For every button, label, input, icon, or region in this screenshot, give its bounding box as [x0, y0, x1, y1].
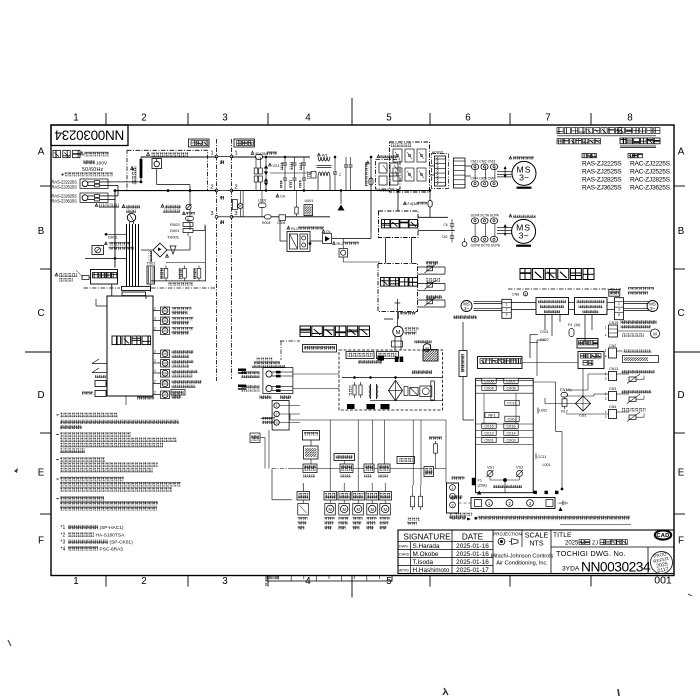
svg-text:RL1: RL1 [291, 227, 298, 231]
svg-text:C014: C014 [506, 431, 516, 436]
svg-text:RAS-ZJ3625S: RAS-ZJ3625S [52, 198, 78, 203]
svg-text:RL2: RL2 [337, 242, 344, 246]
svg-text:T001: T001 [147, 261, 157, 266]
svg-text:M: M [163, 319, 166, 323]
svg-text:CM1 CM2 CM3: CM1 CM2 CM3 [471, 160, 496, 164]
svg-text:1: 1 [618, 302, 620, 306]
svg-text:1: 1 [73, 576, 78, 587]
svg-text:2: 2 [234, 185, 237, 191]
svg-text:CAD: CAD [656, 533, 669, 539]
svg-text:E: E [38, 468, 45, 479]
svg-text:Hitachi-Johnson Controls: Hitachi-Johnson Controls [491, 554, 554, 560]
svg-text:CN13: CN13 [609, 367, 618, 371]
svg-text:L002: L002 [539, 409, 547, 413]
svg-text:T.Isoda: T.Isoda [413, 559, 434, 566]
svg-text:RAS-ZJ3625S: RAS-ZJ3625S [582, 185, 622, 192]
svg-text:M: M [370, 507, 374, 512]
svg-text:CC11: CC11 [507, 401, 517, 406]
svg-text:F4: F4 [568, 323, 572, 327]
svg-text:C004: C004 [484, 386, 494, 391]
svg-text:2025-01-16: 2025-01-16 [456, 551, 489, 558]
svg-text:VS2: VS2 [516, 466, 523, 470]
svg-text:RAC-ZJ2825S: RAC-ZJ2825S [630, 177, 671, 184]
svg-text:2: 2 [506, 308, 508, 312]
svg-text:CN2: CN2 [609, 344, 616, 348]
svg-text:PSC-6RA3: PSC-6RA3 [100, 547, 124, 553]
svg-text:M: M [163, 393, 166, 397]
svg-text:NN0030234: NN0030234 [581, 560, 651, 575]
svg-text:2: 2 [605, 397, 607, 401]
svg-text:3: 3 [222, 113, 228, 124]
svg-text:F4(3A: F4(3A [408, 202, 419, 206]
svg-text:2: 2 [154, 391, 156, 395]
svg-text:1: 1 [276, 404, 278, 408]
svg-text:1: 1 [605, 349, 607, 353]
svg-text:F1: F1 [478, 479, 482, 483]
svg-text:M: M [356, 507, 360, 512]
svg-text:50/60Hz: 50/60Hz [82, 167, 104, 173]
svg-text:CC11: CC11 [538, 455, 547, 459]
svg-text:3YDA: 3YDA [562, 566, 580, 573]
svg-text:6: 6 [465, 113, 471, 124]
svg-text:1: 1 [605, 410, 607, 414]
svg-text:A: A [678, 147, 685, 158]
svg-text:1: 1 [605, 326, 607, 330]
svg-text:C: C [37, 308, 44, 319]
svg-text:3~: 3~ [650, 306, 655, 311]
svg-text:C013: C013 [484, 431, 493, 436]
svg-text:C006: C006 [484, 379, 493, 384]
svg-text:SCPB SCTB SCPB: SCPB SCTB SCPB [471, 244, 501, 248]
svg-text:3: 3 [222, 576, 228, 587]
svg-text:NTS: NTS [530, 541, 544, 548]
svg-text:M: M [163, 382, 166, 386]
svg-text:A0802: A0802 [432, 151, 443, 155]
svg-text:RAS-ZJ2525S: RAS-ZJ2525S [52, 184, 78, 189]
svg-text:2025-01-17: 2025-01-17 [456, 567, 489, 574]
svg-text:3: 3 [234, 211, 237, 217]
svg-text:M: M [383, 507, 387, 512]
svg-text:2: 2 [605, 415, 607, 419]
svg-text:TITLE: TITLE [553, 532, 572, 539]
svg-text:SIGNATURE: SIGNATURE [403, 533, 451, 542]
svg-text:2: 2 [154, 380, 156, 384]
svg-text:D: D [677, 390, 684, 401]
svg-text:3: 3 [618, 307, 620, 311]
svg-text:C00J: C00J [507, 417, 516, 422]
svg-text:RAS-ZJ2225S: RAS-ZJ2225S [582, 161, 622, 168]
svg-text:(3A): (3A) [574, 323, 580, 327]
svg-text:M: M [653, 331, 657, 336]
svg-text:W1: W1 [322, 153, 329, 158]
svg-text:L001: L001 [543, 463, 551, 467]
svg-text:DWN.: DWN. [399, 545, 409, 549]
svg-text:M: M [396, 330, 401, 336]
svg-text:B: B [38, 226, 45, 237]
svg-text:1: 1 [506, 302, 508, 306]
svg-text:2025-01-16: 2025-01-16 [456, 543, 489, 550]
svg-text:5: 5 [386, 576, 392, 587]
svg-text:TH001: TH001 [167, 235, 180, 240]
svg-text:4: 4 [305, 576, 311, 587]
svg-text:2: 2 [154, 359, 156, 363]
svg-text:8: 8 [525, 292, 527, 296]
svg-text:2: 2 [141, 576, 146, 587]
svg-text:R003: R003 [170, 222, 180, 227]
svg-text:NN0030234: NN0030234 [54, 128, 124, 143]
svg-text:VS1: VS1 [487, 466, 494, 470]
svg-text:F: F [38, 536, 44, 547]
svg-text:4: 4 [305, 113, 311, 124]
svg-text:3~: 3~ [464, 306, 469, 311]
svg-text:CN8: CN8 [512, 293, 519, 297]
svg-text:C004: C004 [277, 221, 285, 225]
svg-text:3: 3 [506, 313, 508, 317]
svg-text:M: M [342, 507, 346, 512]
svg-text:SCPA SCTA SCPA: SCPA SCTA SCPA [471, 214, 500, 218]
svg-text:M: M [328, 507, 332, 512]
svg-text:CM4 CM5 CM6: CM4 CM5 CM6 [471, 177, 496, 181]
svg-text:A: A [38, 147, 45, 158]
svg-text:1: 1 [210, 151, 213, 157]
svg-text:*1: *1 [61, 525, 66, 531]
svg-text:M: M [163, 329, 166, 333]
svg-text:C001: C001 [484, 438, 493, 443]
svg-text:B: B [678, 226, 685, 237]
svg-text:D001: D001 [170, 228, 180, 233]
svg-text:2025-01-16: 2025-01-16 [456, 559, 489, 566]
svg-text:D001: D001 [108, 235, 118, 240]
svg-text:C021: C021 [540, 330, 549, 334]
svg-text:RL2: RL2 [561, 410, 568, 414]
svg-text:2: 2 [210, 185, 213, 191]
svg-text:2: 2 [276, 413, 278, 417]
svg-text:2: 2 [141, 113, 146, 124]
svg-text:RAS-ZJ2525S: RAS-ZJ2525S [582, 169, 622, 176]
svg-text:3~: 3~ [519, 172, 529, 182]
svg-text:3: 3 [276, 421, 278, 425]
svg-text:A0601: A0601 [378, 188, 390, 193]
svg-text:DATE: DATE [462, 533, 484, 542]
svg-text:8: 8 [627, 113, 633, 124]
svg-text:CN4: CN4 [609, 405, 616, 409]
svg-text:001: 001 [654, 575, 672, 587]
svg-text:M: M [163, 372, 166, 376]
svg-text:100V: 100V [96, 160, 108, 166]
svg-text:RAS-ZJ2825S: RAS-ZJ2825S [582, 177, 622, 184]
svg-text:2: 2 [605, 377, 607, 381]
svg-text:M.Okobe: M.Okobe [413, 551, 439, 558]
svg-text:E: E [678, 468, 685, 479]
svg-text:5: 5 [618, 313, 620, 317]
svg-text:C008: C008 [506, 386, 515, 391]
svg-text:M: M [163, 309, 166, 313]
svg-text:C003: C003 [506, 438, 515, 443]
svg-text:HA-S100TSA: HA-S100TSA [96, 533, 126, 539]
svg-text:*3: *3 [61, 540, 66, 546]
svg-text:7: 7 [545, 113, 550, 124]
svg-text:3~: 3~ [519, 230, 529, 240]
svg-text:NF1: NF1 [488, 413, 495, 418]
svg-text:2: 2 [154, 307, 156, 311]
svg-text:C62: C62 [442, 235, 448, 239]
svg-text:(25A): (25A) [478, 483, 488, 487]
svg-text:CN3: CN3 [609, 387, 616, 391]
svg-text:H.Hashimoto: H.Hashimoto [413, 567, 450, 574]
svg-text:D: D [37, 390, 44, 401]
svg-text:*4: *4 [61, 547, 66, 553]
svg-text:RAC-ZJ2525S: RAC-ZJ2525S [630, 169, 671, 176]
svg-text:PROJECTION: PROJECTION [493, 532, 521, 537]
svg-text:RAC-ZJ2225S: RAC-ZJ2225S [630, 161, 671, 168]
svg-text:TOCHIGI DWG. No.: TOCHIGI DWG. No. [556, 549, 626, 558]
svg-text:C: C [677, 308, 684, 319]
svg-text:CH: CH [280, 195, 286, 199]
svg-text:VS1: VS1 [273, 164, 280, 168]
svg-text:ZJ: ZJ [592, 541, 598, 547]
svg-text:5: 5 [386, 113, 392, 124]
svg-text:2: 2 [154, 327, 156, 331]
svg-text:M: M [163, 352, 166, 356]
svg-text:2: 2 [154, 350, 156, 354]
svg-text:SCALE: SCALE [525, 531, 549, 540]
svg-text:2025: 2025 [565, 541, 579, 547]
svg-text:4: 4 [605, 355, 607, 359]
svg-text:CN15: CN15 [609, 321, 618, 325]
svg-text:2: 2 [154, 369, 156, 373]
svg-text:S.Harada: S.Harada [413, 543, 440, 550]
svg-text:APVD.: APVD. [399, 569, 410, 573]
svg-text:Air Conditioning, Inc.: Air Conditioning, Inc. [496, 561, 548, 567]
svg-text:3: 3 [210, 211, 213, 217]
svg-text:U001: U001 [305, 199, 314, 203]
svg-text:2: 2 [154, 317, 156, 321]
svg-text:C6: C6 [443, 223, 447, 227]
svg-text:*2: *2 [61, 533, 66, 539]
svg-text:1: 1 [73, 113, 78, 124]
svg-text:F: F [678, 536, 684, 547]
svg-text:CHKD.: CHKD. [399, 553, 410, 557]
svg-text:4: 4 [605, 334, 607, 338]
svg-text:RAC-ZJ3625S: RAC-ZJ3625S [630, 185, 671, 192]
svg-text:M: M [163, 362, 166, 366]
svg-text:LD01: LD01 [258, 199, 267, 203]
svg-text:1: 1 [234, 151, 237, 157]
svg-text:(SP-HAC1): (SP-HAC1) [100, 525, 124, 531]
svg-text:R004: R004 [262, 221, 270, 225]
svg-text:(SP-CK01): (SP-CK01) [110, 540, 134, 546]
svg-text:C007: C007 [506, 379, 515, 384]
